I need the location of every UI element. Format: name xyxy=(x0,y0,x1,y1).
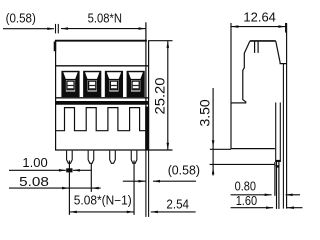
svg-text:5.08: 5.08 xyxy=(19,175,49,189)
svg-text:5.08*(N−1): 5.08*(N−1) xyxy=(74,193,132,207)
svg-text:0.80: 0.80 xyxy=(235,180,256,194)
svg-text:(0.58): (0.58) xyxy=(168,163,200,177)
svg-text:(0.58): (0.58) xyxy=(6,11,36,25)
svg-text:5.08*N: 5.08*N xyxy=(88,12,122,26)
svg-text:12.64: 12.64 xyxy=(243,11,276,25)
svg-text:2.54: 2.54 xyxy=(166,196,189,211)
svg-text:25.20: 25.20 xyxy=(152,77,168,114)
svg-text:3.50: 3.50 xyxy=(197,99,213,126)
svg-text:1.60: 1.60 xyxy=(236,194,257,208)
svg-text:1.00: 1.00 xyxy=(22,156,47,170)
